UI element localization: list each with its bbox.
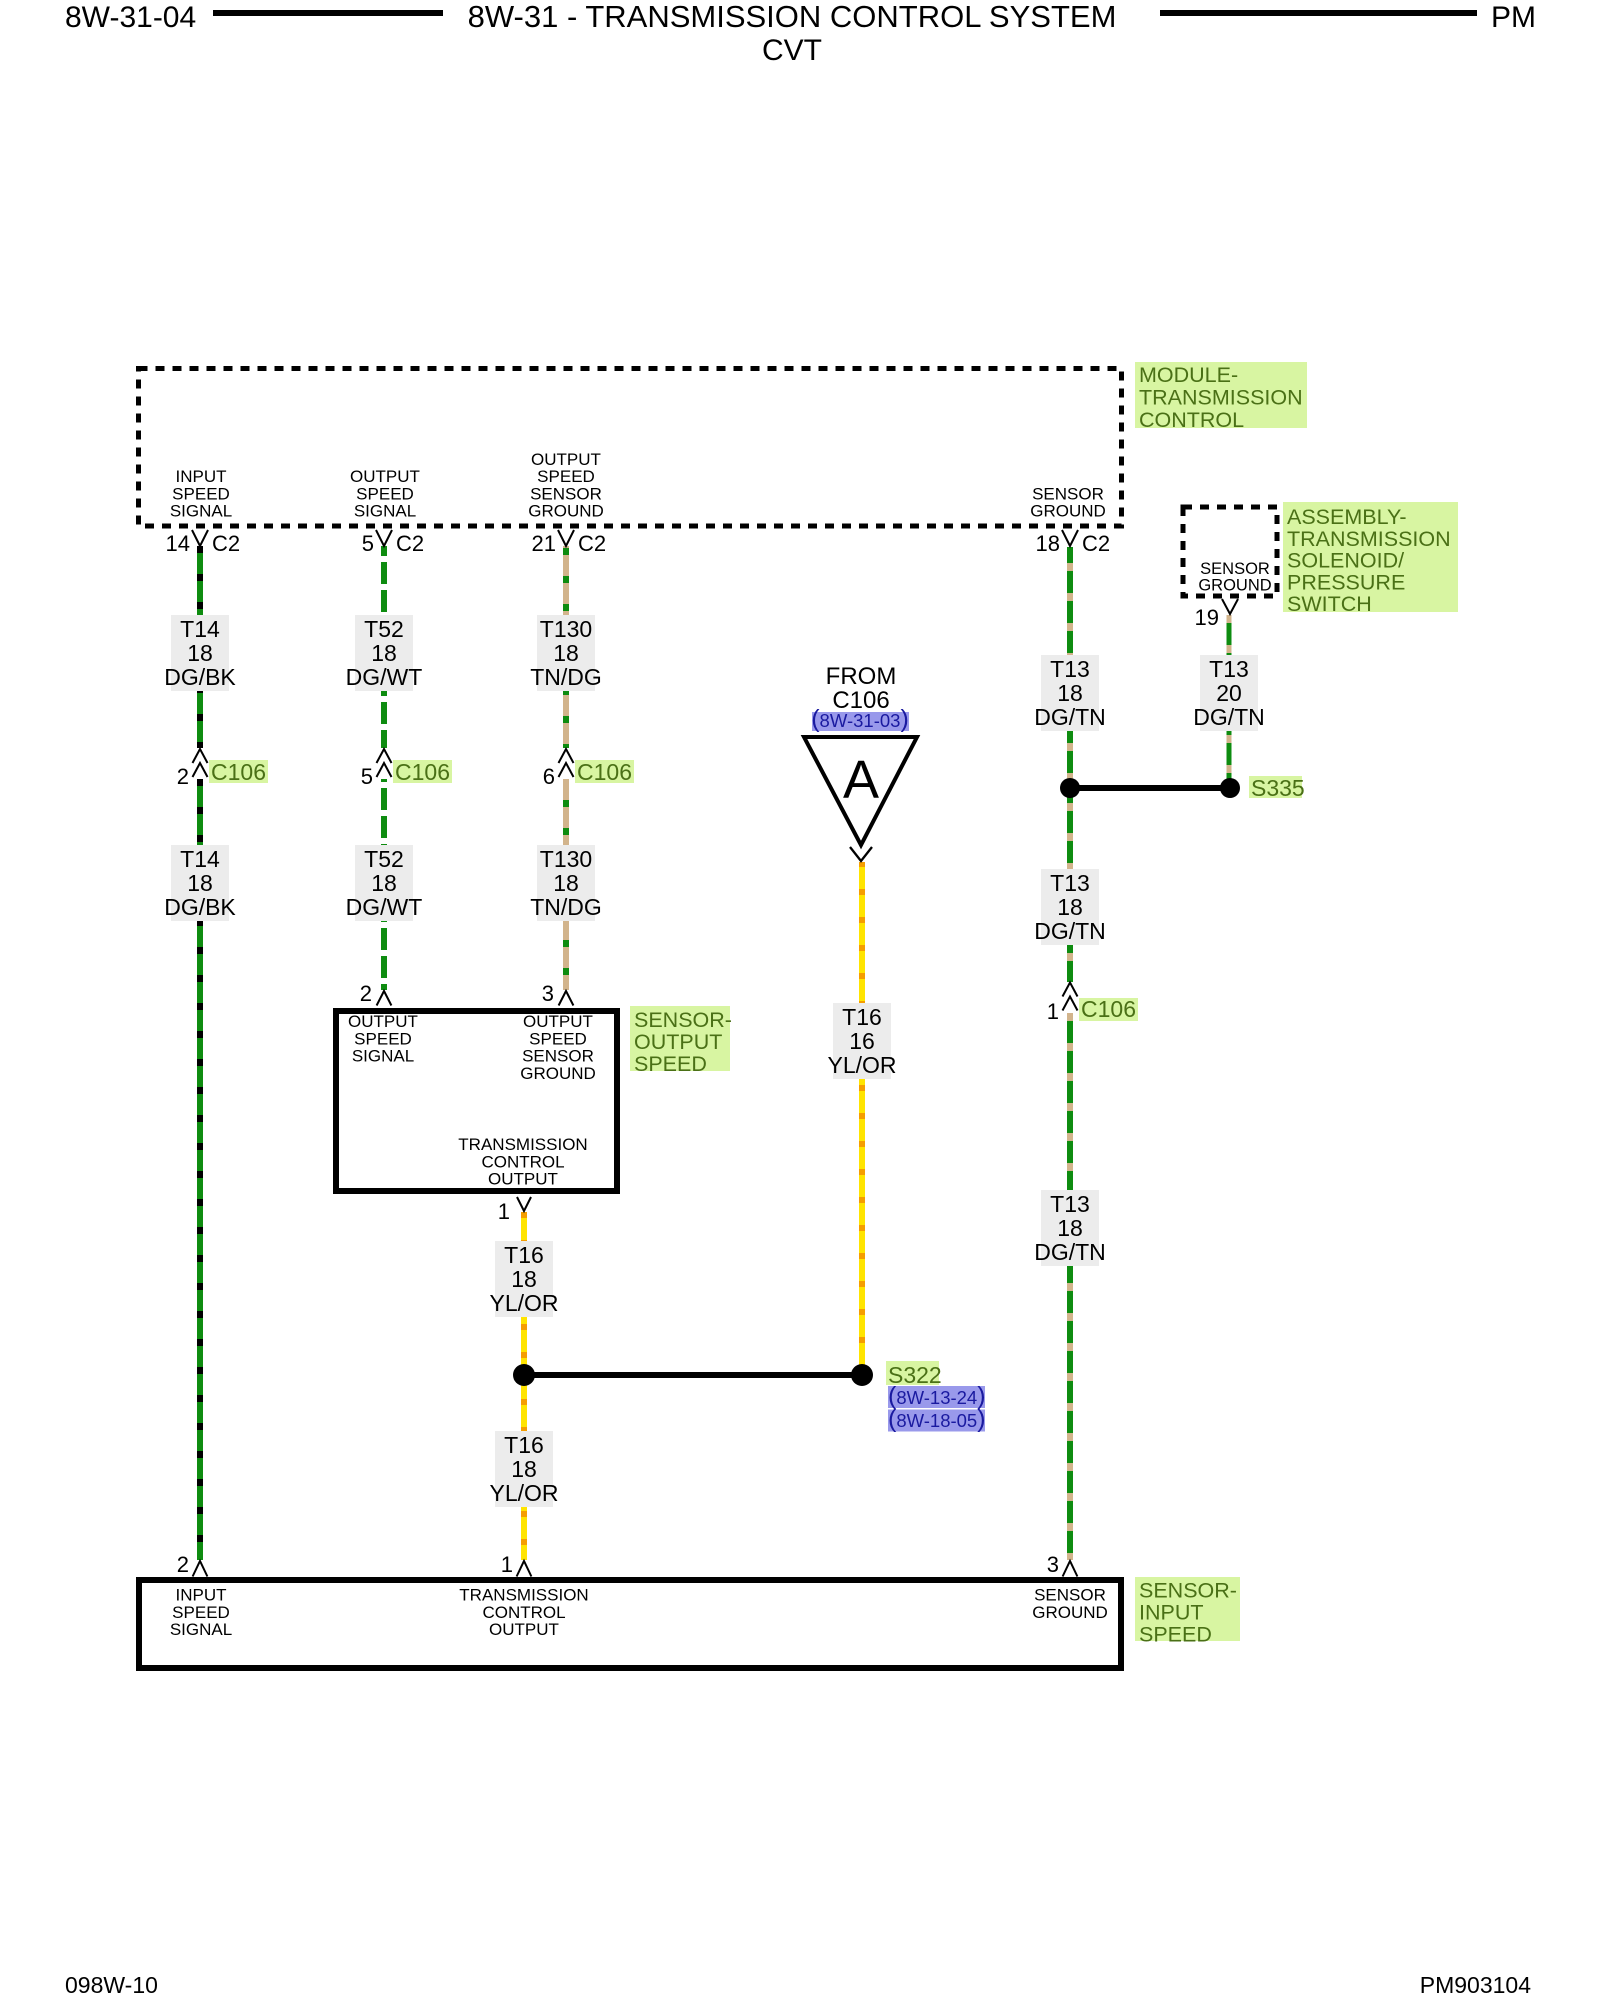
svg-text:GROUND: GROUND <box>1198 577 1271 595</box>
svg-text:SPEED: SPEED <box>634 1052 707 1076</box>
connector C2 pin 14 <box>192 530 208 546</box>
svg-text:T16: T16 <box>504 1242 544 1268</box>
connector C106 pin 6 <box>559 749 574 763</box>
svg-text:SPEED: SPEED <box>172 484 230 503</box>
wire label T13 18 DG/TN (lower) <box>1041 1190 1099 1266</box>
connector C2 pin 18 <box>1062 530 1078 546</box>
svg-text:T16: T16 <box>504 1432 544 1458</box>
svg-text:C106: C106 <box>211 759 266 785</box>
svg-text:1: 1 <box>498 1199 510 1224</box>
assembly pin 19 <box>1222 599 1238 614</box>
svg-text:C106: C106 <box>577 759 632 785</box>
svg-text:DG/WT: DG/WT <box>346 894 423 920</box>
svg-text:6: 6 <box>543 764 555 789</box>
svg-text:TRANSMISSION: TRANSMISSION <box>1287 527 1451 551</box>
svg-text:TRANSMISSION: TRANSMISSION <box>459 1586 588 1605</box>
sensor-output pin 1 (bottom) <box>517 1197 531 1211</box>
svg-text:INPUT: INPUT <box>176 467 227 486</box>
svg-text:18: 18 <box>1057 894 1083 920</box>
svg-text:DG/TN: DG/TN <box>1193 704 1265 730</box>
svg-text:SENSOR: SENSOR <box>1200 560 1270 578</box>
wire T16 (YL/OR) from off-page A to splice S322 <box>859 862 865 1375</box>
svg-text:T14: T14 <box>180 846 220 872</box>
sensor-output label: SENSOR-OUTPUT SPEED <box>630 1006 730 1071</box>
svg-text:SIGNAL: SIGNAL <box>354 502 416 521</box>
svg-text:18: 18 <box>187 640 213 666</box>
svg-text:PM903104: PM903104 <box>1420 1972 1531 1998</box>
sensor U3: SENSOR-INPUT SPEED outline <box>139 1580 1121 1668</box>
svg-text:GROUND: GROUND <box>528 502 604 521</box>
svg-text:OUTPUT: OUTPUT <box>348 1012 418 1031</box>
svg-text:SIGNAL: SIGNAL <box>170 502 232 521</box>
svg-text:T13: T13 <box>1209 656 1249 682</box>
svg-text:5: 5 <box>362 531 374 556</box>
wire label T16 18 YL/OR (upper) <box>495 1241 553 1317</box>
svg-text:DG/TN: DG/TN <box>1034 704 1106 730</box>
wire label T16 16 YL/OR <box>833 1003 891 1079</box>
svg-text:18: 18 <box>1036 531 1060 556</box>
svg-text:GROUND: GROUND <box>520 1064 596 1083</box>
svg-text:21: 21 <box>532 531 556 556</box>
svg-text:ASSEMBLY-: ASSEMBLY- <box>1287 505 1407 529</box>
svg-text:2: 2 <box>177 764 189 789</box>
splice S322 reference (8W-18-05) <box>888 1410 985 1432</box>
svg-text:T130: T130 <box>540 846 592 872</box>
svg-text:C2: C2 <box>1082 531 1110 556</box>
svg-text:CONTROL: CONTROL <box>481 1152 564 1171</box>
svg-text:3: 3 <box>542 981 554 1006</box>
svg-text:(8W-31-03): (8W-31-03) <box>811 705 909 733</box>
header rule left <box>213 10 443 16</box>
svg-text:T13: T13 <box>1050 656 1090 682</box>
triangle output chevron <box>850 847 872 861</box>
svg-text:T13: T13 <box>1050 1191 1090 1217</box>
wire label T13 18 DG/TN (middle) <box>1041 869 1099 945</box>
wire label T130 18 TN/DG (upper) <box>537 615 595 691</box>
svg-text:PM: PM <box>1491 1 1536 34</box>
svg-text:SWITCH: SWITCH <box>1287 592 1372 616</box>
wire T16 (YL/OR) from sensor-output pin 1 to splice S322 <box>521 1212 527 1375</box>
svg-text:A: A <box>843 750 879 810</box>
off-page connector triangle A <box>804 737 917 845</box>
wire label T130 18 TN/DG (lower) <box>537 845 595 921</box>
splice S322 label <box>886 1361 939 1385</box>
svg-text:5: 5 <box>361 764 373 789</box>
svg-text:DG/BK: DG/BK <box>164 664 236 690</box>
off-page reference (8W-31-03) <box>812 712 909 731</box>
svg-text:SENSOR: SENSOR <box>1032 484 1104 503</box>
svg-text:18: 18 <box>511 1266 537 1292</box>
svg-text:MODULE-: MODULE- <box>1139 363 1238 387</box>
wire label T52 18 DG/WT (upper) <box>355 615 413 691</box>
svg-text:SIGNAL: SIGNAL <box>352 1047 414 1066</box>
svg-text:DG/BK: DG/BK <box>164 894 236 920</box>
header rule right <box>1160 10 1477 16</box>
svg-text:S335: S335 <box>1251 775 1305 801</box>
svg-text:2: 2 <box>177 1552 189 1577</box>
svg-text:2: 2 <box>360 981 372 1006</box>
svg-text:3: 3 <box>1047 1552 1059 1577</box>
svg-text:INPUT: INPUT <box>1139 1601 1204 1625</box>
connector C106 pin 2 <box>193 749 208 763</box>
svg-text:GROUND: GROUND <box>1030 502 1106 521</box>
svg-text:T130: T130 <box>540 616 592 642</box>
svg-text:(8W-13-24): (8W-13-24) <box>888 1382 986 1410</box>
svg-text:T52: T52 <box>364 846 404 872</box>
svg-text:TN/DG: TN/DG <box>530 894 602 920</box>
wire T13 (DG/TN) segment, C106 to sensor pin 3 <box>1067 1013 1073 1560</box>
splice S335 label <box>1249 776 1302 798</box>
svg-text:FROM: FROM <box>826 663 897 690</box>
svg-text:OUTPUT: OUTPUT <box>634 1030 722 1054</box>
svg-text:1: 1 <box>1047 999 1059 1024</box>
sensor-output pin 3 <box>559 991 574 1006</box>
svg-text:YL/OR: YL/OR <box>489 1480 558 1506</box>
module label: MODULE-TRANSMISSION CONTROL <box>1135 362 1307 428</box>
wire T13 (DG/TN 20ga) from assembly pin 19 to splice S335 <box>1227 615 1232 788</box>
svg-text:C106: C106 <box>395 759 450 785</box>
connector C106 pin 5 <box>377 749 392 763</box>
svg-text:SENSOR: SENSOR <box>1034 1586 1106 1605</box>
svg-text:18: 18 <box>1057 680 1083 706</box>
wire T130 (TN/DG) lower segment, C106 to sensor pin 3 <box>563 779 569 990</box>
svg-text:T16: T16 <box>842 1004 882 1030</box>
svg-text:C2: C2 <box>212 531 240 556</box>
svg-text:18: 18 <box>371 870 397 896</box>
wire T14 (DG/BK) lower segment, C106 to sensor pin 2 <box>197 779 203 1560</box>
svg-text:19: 19 <box>1195 605 1219 630</box>
svg-text:TN/DG: TN/DG <box>530 664 602 690</box>
svg-text:C106: C106 <box>1081 996 1136 1022</box>
svg-text:8W-31-04: 8W-31-04 <box>65 1 196 34</box>
svg-text:8W-31 - TRANSMISSION CONTROL S: 8W-31 - TRANSMISSION CONTROL SYSTEM <box>468 0 1117 34</box>
splice S335 bus wire <box>1070 785 1230 791</box>
svg-text:SENSOR-: SENSOR- <box>634 1008 732 1032</box>
wire label T14 18 DG/BK (lower) <box>171 845 229 921</box>
svg-text:20: 20 <box>1216 680 1242 706</box>
svg-text:T13: T13 <box>1050 870 1090 896</box>
svg-text:DG/TN: DG/TN <box>1034 1239 1106 1265</box>
splice S335 junction dot left <box>1060 778 1080 798</box>
wire label T52 18 DG/WT (lower) <box>355 845 413 921</box>
connector C2 pin 21 <box>558 530 574 546</box>
wire T130 (TN/DG) upper segment, module pin 21 to C106 <box>563 546 569 748</box>
wire T14 (DG/BK) upper segment, module pin 14 to C106 <box>197 546 203 748</box>
svg-text:16: 16 <box>849 1028 875 1054</box>
svg-text:CONTROL: CONTROL <box>482 1603 565 1622</box>
svg-text:PRESSURE: PRESSURE <box>1287 570 1405 594</box>
svg-text:OUTPUT: OUTPUT <box>531 450 601 469</box>
svg-text:SENSOR-: SENSOR- <box>1139 1579 1237 1603</box>
assembly label: ASSEMBLY-TRANSMISSION SOLENOID/PRESSURE SWITCH <box>1283 502 1458 612</box>
svg-text:OUTPUT: OUTPUT <box>488 1170 558 1189</box>
svg-text:OUTPUT: OUTPUT <box>489 1620 559 1639</box>
connector C106 pin 1 (right) <box>1063 983 1078 997</box>
svg-text:098W-10: 098W-10 <box>65 1972 158 1998</box>
splice S322 bus wire <box>524 1372 862 1378</box>
sensor-input pin 3 <box>1063 1561 1078 1577</box>
svg-text:14: 14 <box>166 531 190 556</box>
svg-text:CVT: CVT <box>762 34 822 67</box>
svg-text:C2: C2 <box>396 531 424 556</box>
svg-text:18: 18 <box>511 1456 537 1482</box>
connector C2 pin 5 <box>376 530 392 546</box>
svg-text:T52: T52 <box>364 616 404 642</box>
svg-text:INPUT: INPUT <box>176 1586 227 1605</box>
svg-text:18: 18 <box>553 640 579 666</box>
svg-text:18: 18 <box>1057 1215 1083 1241</box>
svg-text:SPEED: SPEED <box>354 1029 412 1048</box>
splice S322 junction dot left <box>513 1364 535 1386</box>
wire label T14 18 DG/BK (upper) <box>171 615 229 691</box>
svg-text:18: 18 <box>553 870 579 896</box>
sensor-input pin 2 <box>193 1561 208 1577</box>
splice S335 junction dot right <box>1220 778 1240 798</box>
sensor-input pin 1 <box>517 1561 532 1577</box>
svg-text:SENSOR: SENSOR <box>530 484 602 503</box>
svg-text:CONTROL: CONTROL <box>1139 408 1244 432</box>
svg-text:OUTPUT: OUTPUT <box>523 1012 593 1031</box>
wire T13 (DG/TN) segment, module pin 18 to C106 <box>1067 547 1073 982</box>
svg-text:DG/TN: DG/TN <box>1034 918 1106 944</box>
svg-text:SPEED: SPEED <box>537 467 595 486</box>
wire T52 (DG/WT) upper segment, module pin 5 to C106 <box>381 546 387 748</box>
wire label T16 18 YL/OR (lower) <box>495 1431 553 1507</box>
svg-text:(8W-18-05): (8W-18-05) <box>888 1405 986 1433</box>
wire T16 (YL/OR) from splice S322 to sensor-input pin 1 <box>521 1375 527 1560</box>
svg-text:SPEED: SPEED <box>172 1603 230 1622</box>
svg-text:DG/WT: DG/WT <box>346 664 423 690</box>
wire label T13 18 DG/TN (upper) <box>1041 655 1099 731</box>
sensor-input label: SENSOR-INPUT SPEED <box>1135 1577 1240 1641</box>
svg-text:OUTPUT: OUTPUT <box>350 467 420 486</box>
svg-text:18: 18 <box>187 870 213 896</box>
svg-text:GROUND: GROUND <box>1032 1603 1108 1622</box>
svg-text:SENSOR: SENSOR <box>522 1047 594 1066</box>
svg-text:TRANSMISSION: TRANSMISSION <box>1139 386 1303 410</box>
module U1: MODULE-TRANSMISSION CONTROL dashed outline <box>139 369 1122 527</box>
svg-text:YL/OR: YL/OR <box>827 1052 896 1078</box>
svg-text:18: 18 <box>371 640 397 666</box>
svg-text:1: 1 <box>501 1552 513 1577</box>
svg-text:T14: T14 <box>180 616 220 642</box>
assembly: TRANSMISSION SOLENOID/PRESSURE SWITCH dashed outline <box>1183 507 1277 596</box>
sensor U2: SENSOR-OUTPUT SPEED outline <box>336 1011 617 1191</box>
svg-text:SPEED: SPEED <box>529 1029 587 1048</box>
svg-text:SOLENOID/: SOLENOID/ <box>1287 549 1404 573</box>
svg-text:YL/OR: YL/OR <box>489 1290 558 1316</box>
splice S322 junction dot right <box>851 1364 873 1386</box>
wire T52 (DG/WT) lower segment, C106 to sensor pin 2 <box>381 779 387 990</box>
wire label T13 20 DG/TN <box>1200 655 1258 731</box>
svg-text:SPEED: SPEED <box>1139 1623 1212 1647</box>
svg-text:TRANSMISSION: TRANSMISSION <box>458 1135 587 1154</box>
svg-text:SIGNAL: SIGNAL <box>170 1620 232 1639</box>
sensor-output pin 2 <box>377 991 392 1006</box>
svg-text:SPEED: SPEED <box>356 484 414 503</box>
svg-text:C2: C2 <box>578 531 606 556</box>
splice S322 reference (8W-13-24) <box>888 1386 985 1408</box>
